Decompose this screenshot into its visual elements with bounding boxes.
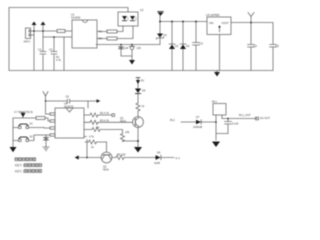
svg-text:104: 104 — [124, 46, 129, 50]
svg-text:KEY 1: KEY 1 — [15, 164, 25, 168]
svg-text:104: 104 — [137, 46, 142, 50]
svg-text:C1: C1 — [38, 48, 42, 52]
svg-text:U3 LM7805: U3 LM7805 — [206, 13, 220, 17]
svg-text:U2: U2 — [140, 8, 144, 12]
svg-text:SC2272: SC2272 — [64, 104, 74, 108]
svg-text:D7: D7 — [196, 115, 200, 119]
svg-text:R2 4.7k: R2 4.7k — [100, 111, 110, 115]
svg-text:KEY 2: KEY 2 — [15, 169, 25, 173]
svg-text:RL1: RL1 — [170, 118, 175, 122]
svg-text:C4: C4 — [254, 44, 258, 48]
svg-text:5V: 5V — [141, 79, 144, 83]
svg-text:D6: D6 — [157, 151, 161, 155]
svg-text:1N4148: 1N4148 — [193, 125, 203, 129]
svg-text:C6: C6 — [66, 95, 70, 99]
svg-text:4148: 4148 — [154, 161, 160, 165]
svg-text:D5: D5 — [142, 89, 146, 93]
svg-text:VIN: VIN — [209, 21, 213, 25]
svg-text:D1: D1 — [164, 33, 168, 37]
svg-text:VOUT: VOUT — [222, 21, 230, 25]
svg-text:S1: S1 — [30, 122, 34, 126]
svg-text:AC-OUT: AC-OUT — [260, 116, 270, 120]
svg-text:IL-1: IL-1 — [176, 156, 181, 160]
svg-text:C2: C2 — [49, 48, 53, 52]
svg-text:R3 4.7k: R3 4.7k — [100, 118, 110, 122]
svg-text:9013: 9013 — [120, 119, 126, 123]
svg-text:C5: C5 — [276, 44, 280, 48]
svg-text:R6 100: R6 100 — [117, 153, 126, 157]
svg-text:0.1uF: 0.1uF — [232, 122, 239, 126]
svg-text:SC2262: SC2262 — [71, 16, 81, 20]
svg-text:4.7 REMOTE IN: 4.7 REMOTE IN — [14, 110, 33, 114]
svg-text:ANT1: ANT1 — [24, 40, 31, 44]
svg-text:4.7k: 4.7k — [56, 58, 62, 62]
svg-text:R4: R4 — [96, 126, 100, 130]
svg-text:D2: D2 — [175, 44, 179, 48]
svg-text:RX: RX — [99, 37, 103, 41]
svg-text:4.7k: 4.7k — [89, 135, 95, 139]
svg-text:10k: 10k — [125, 130, 130, 134]
svg-text:D3: D3 — [186, 44, 190, 48]
svg-text:C3: C3 — [200, 42, 204, 46]
svg-text:TX: TX — [99, 30, 103, 34]
svg-text:RL1_OUT: RL1_OUT — [239, 113, 251, 117]
svg-text:RL1: RL1 — [212, 100, 217, 104]
svg-text:9014: 9014 — [103, 168, 109, 172]
svg-text:S2: S2 — [30, 135, 34, 139]
